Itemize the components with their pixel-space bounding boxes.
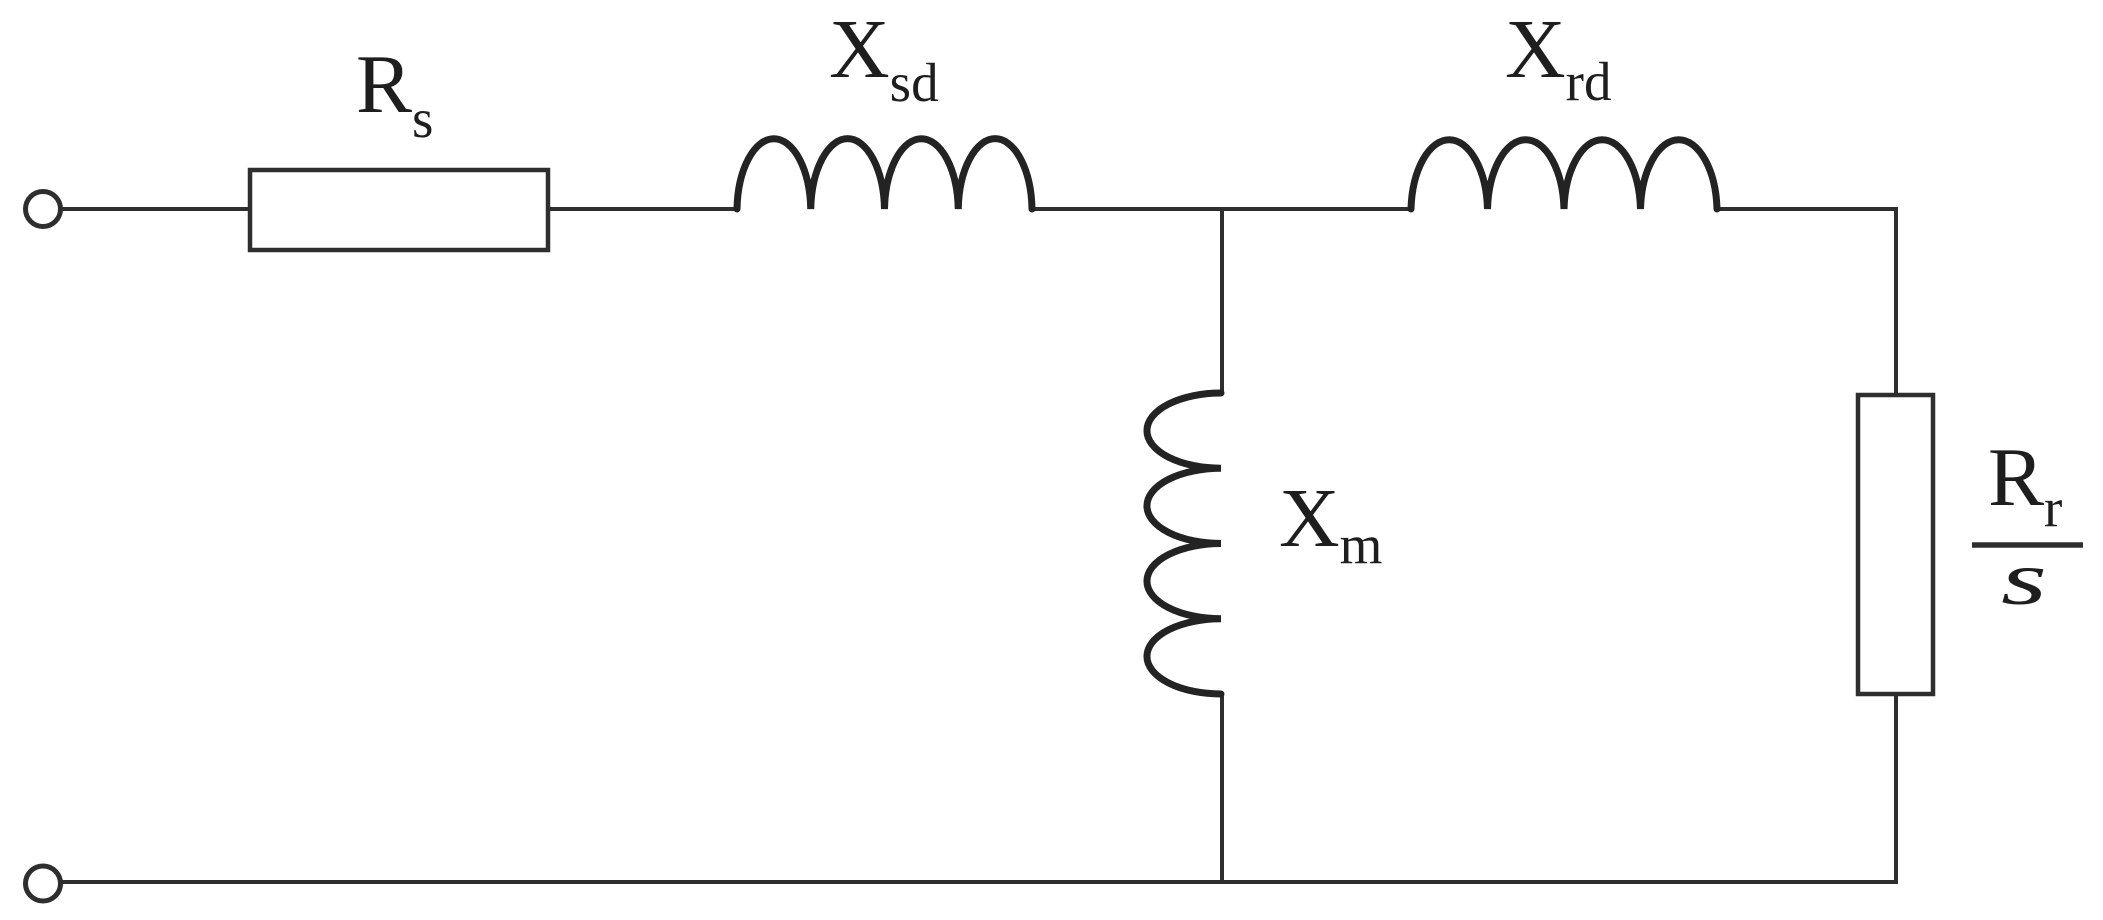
svg-text:s: s [2001, 537, 2047, 621]
